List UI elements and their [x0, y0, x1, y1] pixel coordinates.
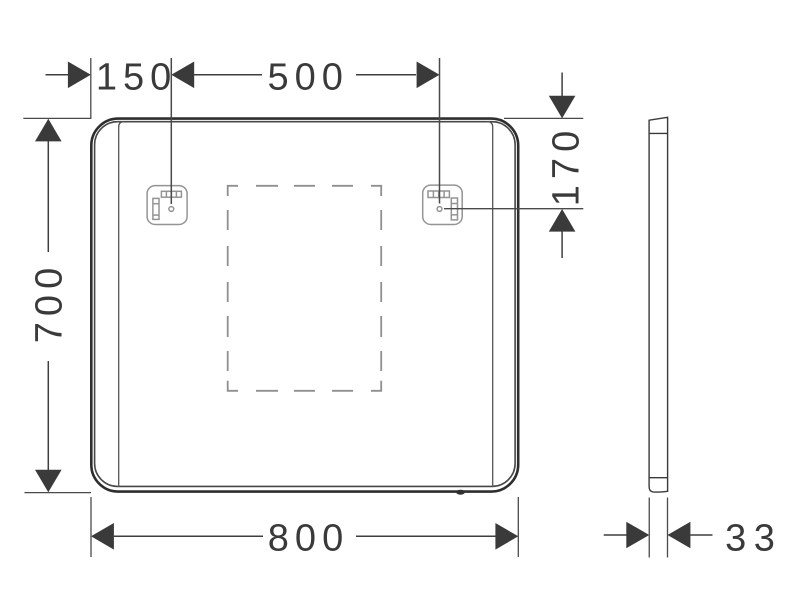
svg-text:33: 33: [725, 518, 782, 560]
svg-text:170: 170: [545, 125, 587, 206]
dim 500 right arrow: [417, 62, 440, 89]
dim 33 left extension line: [648, 498, 650, 558]
dim 170 bottom arrow: [549, 209, 576, 232]
dim 700 line lower: [47, 361, 49, 470]
left edge extension line top: [90, 58, 92, 119]
svg-text:800: 800: [268, 518, 349, 560]
dim 33 right arrow: [668, 522, 691, 549]
svg-text:150: 150: [96, 57, 177, 99]
mirror inner face left line: [119, 122, 124, 487]
mirror front view outer outline: [91, 119, 518, 492]
dashed LED area rectangle: [228, 186, 382, 391]
dim 700 line upper: [47, 141, 49, 252]
mirror front view inner edge contour: [95, 122, 515, 487]
dim 170 upper stub line: [561, 73, 563, 97]
dim 800 left extension line: [90, 497, 92, 557]
left bracket centerline: [170, 58, 172, 204]
dim 700 top extension line: [23, 117, 91, 119]
dim 700 bottom extension line: [25, 492, 92, 494]
dim 33 left leader: [604, 534, 627, 536]
dim 170 top extension line: [504, 117, 583, 119]
dim 150 left arrow: [68, 62, 91, 89]
bottom cable bump: [456, 490, 465, 495]
dim 800 line left: [114, 535, 263, 537]
mirror inner face right line: [487, 122, 492, 487]
dim 500 line right: [356, 74, 416, 76]
side view bottom divider: [649, 477, 668, 479]
dim 33 right leader: [690, 534, 712, 536]
dim 170 bottom extension line: [444, 208, 583, 210]
dim 800 right extension line: [517, 497, 519, 557]
dim 150 leader line: [46, 74, 69, 76]
dim 800 left arrow: [91, 523, 114, 550]
dim 700 top arrow: [35, 119, 62, 142]
svg-text:500: 500: [267, 57, 348, 99]
dim 170 lower stub line: [561, 231, 563, 258]
dim 700 bottom arrow: [35, 470, 62, 493]
dim 500 left arrow: [171, 62, 194, 89]
dim 33 left arrow: [626, 522, 649, 549]
dim 800 right arrow: [495, 523, 518, 550]
left mounting bracket icon: [147, 186, 187, 225]
dim 170 top arrow: [549, 96, 576, 119]
right bracket centerline: [439, 58, 441, 204]
side view top divider: [649, 132, 668, 134]
dim 500 line left: [194, 74, 262, 76]
right mounting bracket icon: [423, 185, 463, 224]
side view outline: [649, 117, 668, 492]
dim 33 right extension line: [667, 498, 669, 558]
svg-text:700: 700: [29, 262, 71, 343]
dim 800 line right: [356, 535, 496, 537]
